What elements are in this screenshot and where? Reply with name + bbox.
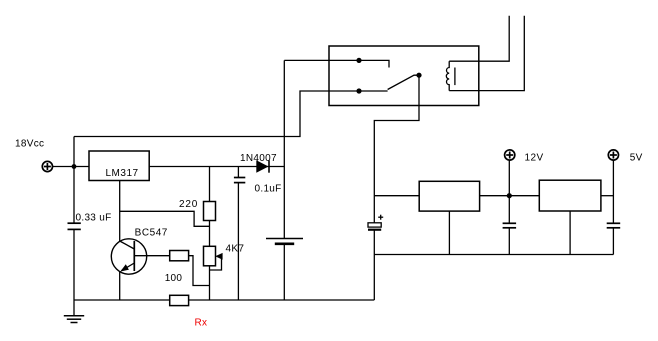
svg-text:12V: 12V: [525, 153, 544, 164]
electrolytic capacitor plus sign: [378, 215, 383, 220]
svg-text:18Vcc: 18Vcc: [15, 139, 44, 150]
input terminal 18Vcc: [42, 161, 52, 171]
potentiometer 4K7 body: [204, 246, 216, 265]
wire: right ground rail: [374, 254, 613, 256]
wire: 0.1uF top connection: [237, 167, 239, 178]
wire: regulator input rail segment 1: [374, 195, 419, 197]
wire: between 220 and 4K7: [209, 221, 211, 247]
wire: reg1 ground pin: [448, 211, 450, 254]
relay coil core bar: [454, 68, 456, 86]
svg-text:100: 100: [165, 273, 183, 284]
output terminal 12V: [505, 150, 515, 160]
junction dot relay upper contact: [356, 58, 361, 63]
wire: 0.1uF bottom to ground rail: [237, 183, 239, 300]
wire: 0.33uF bottom to ground: [73, 229, 75, 315]
svg-text:Rx: Rx: [195, 318, 208, 329]
wire: 5V cap bottom to rail: [612, 228, 614, 255]
wire: relay pole down to regulator input: [374, 75, 419, 223]
wire: bottom ground rail: [74, 299, 374, 301]
wire: relay upper fixed contact with tick: [359, 60, 389, 67]
wire: 220 resistor top connection: [209, 167, 211, 202]
regulator box 5V: [539, 180, 601, 211]
wire: top rail from input junction to relay lower contact: [74, 91, 359, 137]
resistor 220: [204, 202, 216, 221]
ground symbol: [64, 316, 84, 323]
capacitor 0.1uF plates: [234, 178, 245, 183]
battery plates: [266, 239, 303, 244]
wire: input terminal to LM317: [53, 166, 90, 168]
wire: ADJ branch to 220/4K7 node: [120, 211, 210, 226]
junction dot relay pole: [416, 73, 421, 78]
capacitor 0.33uF plates: [68, 223, 81, 229]
wire: input junction down to 0.33uF: [73, 167, 75, 224]
wire: LM317 ADJ pin down to transistor collector: [119, 181, 121, 242]
junction dot relay lower contact: [356, 88, 361, 93]
capacitor C12V plates: [503, 223, 516, 228]
wire: transistor base to 100 resistor: [134, 255, 169, 257]
output terminal 5V: [608, 150, 618, 160]
electrolytic capacitor plates: [368, 223, 381, 230]
svg-text:220: 220: [179, 199, 198, 210]
wire: battery minus to ground rail: [283, 244, 285, 300]
relay coil: [446, 61, 449, 90]
junction dot 12V node: [507, 193, 512, 198]
wire: LM317 output to diode and battery vertical: [149, 166, 284, 168]
wire: 100 resistor right elbow to 4K7 bottom: [189, 256, 210, 286]
wire: 12V terminal vertical: [508, 160, 510, 223]
wire: electrolytic cap bottom to right rail: [373, 230, 375, 255]
potentiometer 4K7 wiper: [210, 253, 223, 270]
svg-text:BC547: BC547: [135, 228, 168, 239]
wire: right rail link down to left rail: [373, 255, 375, 301]
capacitor C5V plates: [607, 223, 621, 228]
regulator box 12V: [419, 181, 479, 211]
wire: relay switch arm: [388, 75, 419, 89]
wire: relay lower fixed contact: [359, 90, 388, 92]
junction dot input: [72, 164, 77, 169]
resistor 100: [170, 251, 189, 261]
svg-text:0.1uF: 0.1uF: [255, 184, 282, 195]
wire: relay upper contact to battery vertical: [284, 59, 359, 61]
svg-text:5V: 5V: [630, 153, 643, 164]
wire: reg2 ground pin: [569, 211, 571, 255]
resistor Rx: [170, 295, 189, 305]
transistor Q1 BC547: [111, 239, 146, 274]
wire: battery vertical from relay upper contact down to battery +: [283, 60, 285, 238]
wire: input junction vertical up to top rail: [73, 137, 75, 167]
svg-text:0.33 uF: 0.33 uF: [76, 213, 112, 224]
svg-text:LM317: LM317: [106, 168, 139, 179]
wire: relay coil top wire to right: [449, 16, 509, 61]
wire: 5V terminal vertical: [612, 160, 614, 223]
wire: relay coil bottom wire to right: [449, 16, 524, 91]
wire: 4K7 bottom to ground rail: [209, 266, 211, 300]
wire: 12V cap bottom to rail: [508, 228, 510, 255]
diode 1N4007: [256, 160, 269, 172]
wire: transistor emitter to ground rail: [119, 271, 121, 300]
wire: reg2 output to 5V vertical: [601, 195, 614, 197]
relay box K1: [329, 46, 479, 106]
LM317 box U1: [89, 151, 149, 181]
svg-text:4K7: 4K7: [226, 244, 245, 255]
wire: reg1 output to reg2 input: [480, 195, 540, 197]
svg-text:1N4007: 1N4007: [240, 153, 277, 164]
